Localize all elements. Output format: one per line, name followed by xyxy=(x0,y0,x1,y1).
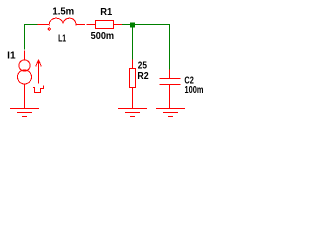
current source I1 xyxy=(18,51,44,109)
I1 bottom circle xyxy=(18,70,32,84)
wire: left corner net from I1 up to L1 xyxy=(25,25,38,50)
inductor L1 xyxy=(38,18,86,31)
node junction xyxy=(130,23,135,28)
capacitor C2 xyxy=(160,70,181,109)
L1 coil humps xyxy=(49,18,76,25)
svg-text:100m: 100m xyxy=(185,85,204,96)
resistor R1 xyxy=(87,21,123,29)
I1 current direction arrow xyxy=(38,61,40,84)
ground (under I1) xyxy=(10,109,39,117)
C2 top plate xyxy=(160,78,181,80)
pin top of I1 xyxy=(24,51,26,61)
I1 top circle xyxy=(19,60,30,71)
ground (under R2) xyxy=(118,109,147,117)
C2 bottom plate xyxy=(160,84,181,86)
I1 pulse waveform glyph xyxy=(33,86,44,93)
svg-text:R1: R1 xyxy=(100,7,112,18)
pin right of R1 xyxy=(114,24,123,26)
ground (under C2) xyxy=(156,109,185,117)
svg-text:25: 25 xyxy=(138,60,148,71)
pin bottom of R2 xyxy=(132,88,134,109)
pin top of C2 xyxy=(169,70,171,79)
svg-text:1.5m: 1.5m xyxy=(52,6,74,17)
svg-text:I1: I1 xyxy=(7,51,16,62)
L1 origin diamond marker xyxy=(47,27,51,31)
wire: junction to right corner, down to C2 xyxy=(135,25,170,70)
svg-text:L1: L1 xyxy=(58,34,66,45)
resistor R2 xyxy=(130,60,136,109)
R2 body xyxy=(130,69,136,88)
pin left of L1 xyxy=(38,24,50,26)
svg-text:500m: 500m xyxy=(91,31,115,42)
pin top of R2 xyxy=(132,60,134,69)
wire: R1 right pin to junction xyxy=(122,24,130,26)
pin bottom of I1 xyxy=(24,84,26,109)
pin right of L1 xyxy=(76,24,85,26)
pin bottom of C2 xyxy=(169,85,171,109)
svg-text:R2: R2 xyxy=(137,71,149,82)
R1 body xyxy=(96,21,114,29)
pin left of R1 xyxy=(87,24,96,26)
wire: junction down to R2 xyxy=(132,28,134,60)
